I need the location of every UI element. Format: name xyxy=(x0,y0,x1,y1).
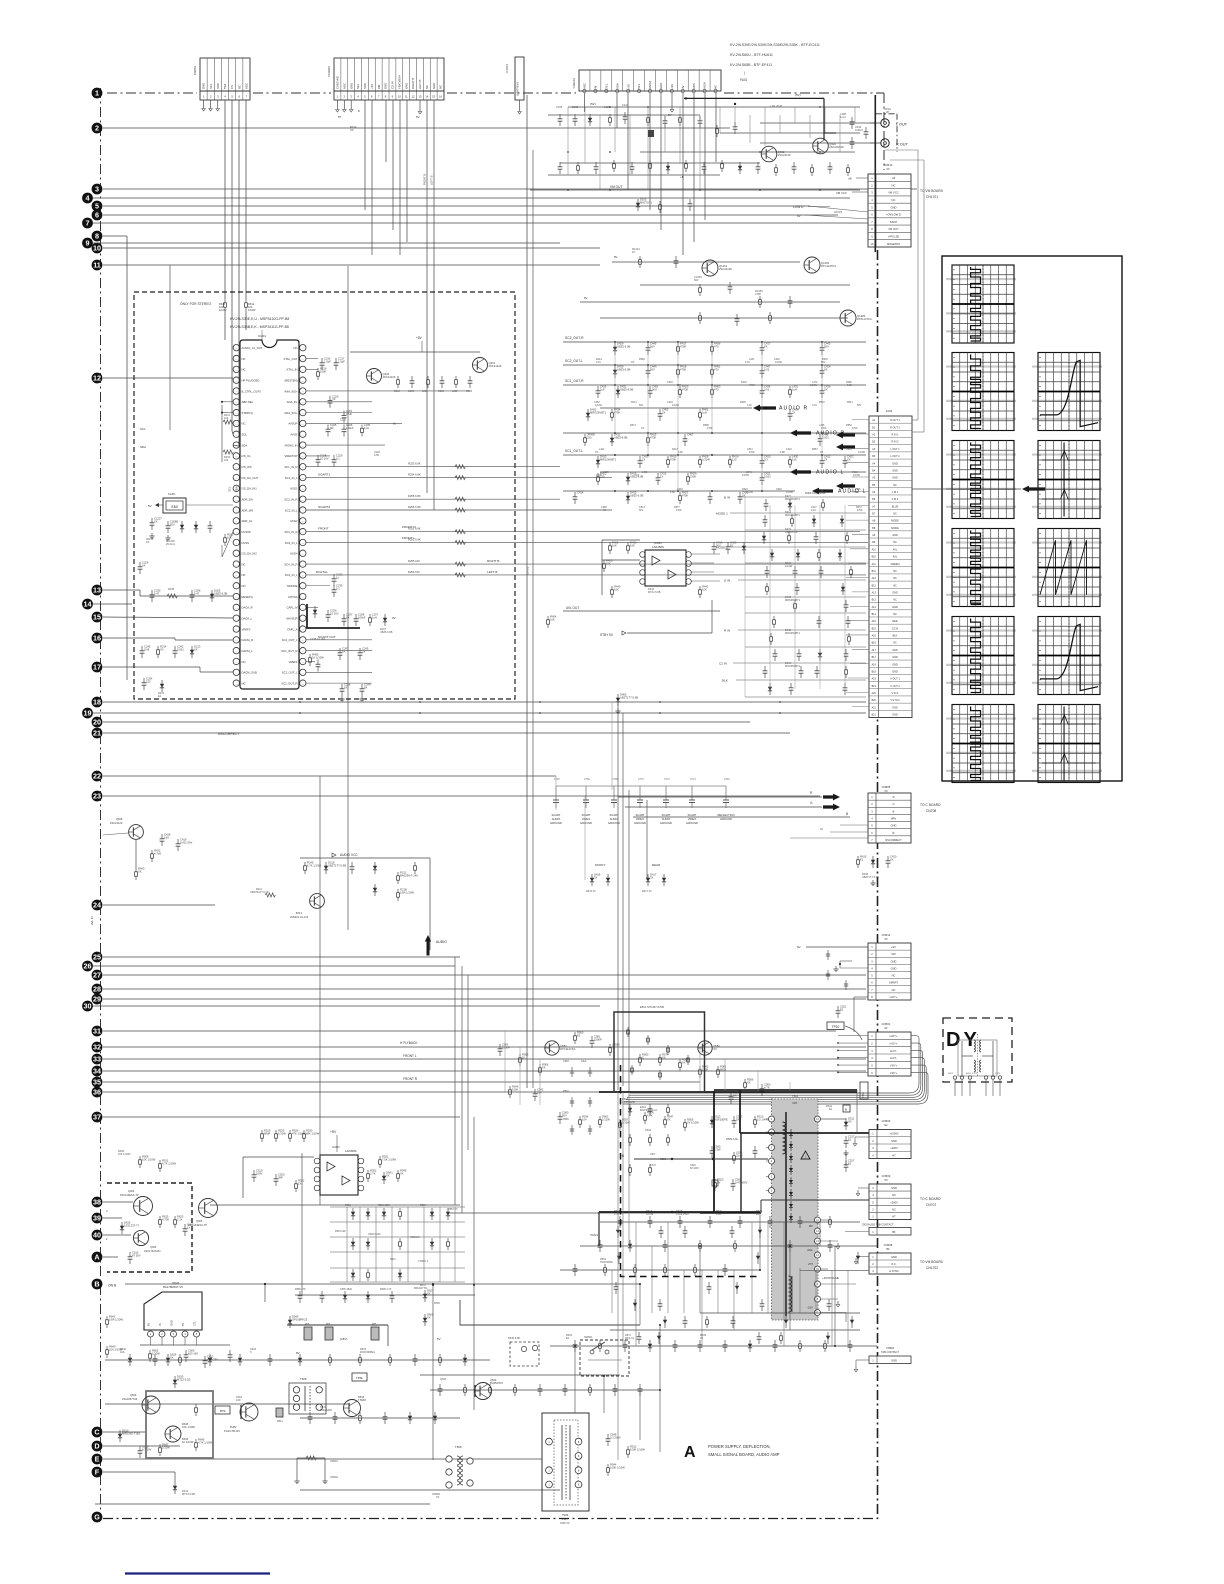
svg-text:6.8K: 6.8K xyxy=(780,451,785,454)
svg-text:CAPL_A: CAPL_A xyxy=(287,627,298,631)
svg-text:C215: C215 xyxy=(408,390,415,393)
svg-text:H.DY-: H.DY- xyxy=(890,1056,897,1060)
svg-text:MRD2E5-T1B2: MRD2E5-T1B2 xyxy=(122,1431,141,1435)
svg-text:C425: C425 xyxy=(603,471,609,474)
wire bus y989 xyxy=(103,988,866,990)
svg-text:1/10W: 1/10W xyxy=(858,451,866,454)
svg-text:100K 1/10W: 100K 1/10W xyxy=(630,1447,645,1451)
svg-text:2.7K: 2.7K xyxy=(614,1213,619,1216)
svg-text:+B: +B xyxy=(620,1154,624,1158)
oscillogram W2 xyxy=(946,353,1016,431)
oscillogram W3 xyxy=(946,441,1016,519)
svg-text:UBZ5-6.0B: UBZ5-6.0B xyxy=(630,493,644,497)
svg-text:1/10W: 1/10W xyxy=(595,404,603,407)
svg-text:28: 28 xyxy=(93,985,101,994)
wire B arrow xyxy=(633,816,850,818)
warning triangle xyxy=(801,1151,810,1159)
component D101 box xyxy=(648,130,654,137)
svg-text:+200V: +200V xyxy=(890,1146,898,1150)
resistor R211 jr xyxy=(265,893,275,897)
svg-text:22uH: 22uH xyxy=(736,1153,742,1157)
svg-text:13: 13 xyxy=(93,586,101,595)
oscillogram W5 xyxy=(946,617,1016,695)
transformer T503 PWT xyxy=(542,1413,589,1511)
svg-text:F: F xyxy=(95,1468,100,1477)
capacitor C519 C520 xyxy=(253,1170,255,1175)
svg-text:Y/V IN 2: Y/V IN 2 xyxy=(890,699,900,702)
svg-text:R255 100: R255 100 xyxy=(408,559,420,563)
svg-text:0.001: 0.001 xyxy=(177,647,184,651)
wire top mid verticals xyxy=(567,107,569,175)
svg-text:Q609: Q609 xyxy=(130,1393,137,1397)
svg-text:GND: GND xyxy=(404,83,408,89)
svg-text:29: 29 xyxy=(93,995,101,1004)
svg-text:CN1101: CN1101 xyxy=(572,78,576,89)
oscillogram W4 xyxy=(946,529,1016,607)
wire bus y702 xyxy=(103,701,866,703)
svg-text:31: 31 xyxy=(93,1027,101,1036)
wire bus y1459 xyxy=(103,1458,542,1460)
svg-text:B13: B13 xyxy=(872,599,877,602)
relay RY601 xyxy=(580,1340,629,1376)
wire bus y198 xyxy=(93,197,850,199)
jack L OUT xyxy=(881,119,889,127)
svg-text:+RV: +RV xyxy=(330,1130,337,1134)
wire CN2001 5V stub xyxy=(419,100,421,108)
wire XTAL components xyxy=(306,358,318,360)
svg-text:100V: 100V xyxy=(256,1171,262,1175)
wire CN512 gnd jog xyxy=(840,960,852,962)
wire audio L rows xyxy=(600,471,866,473)
svg-text:SCART: SCART xyxy=(551,813,560,817)
node 34 (sheet interconnect) xyxy=(92,1066,103,1077)
svg-text:AVL: AVL xyxy=(893,548,898,551)
svg-text:R IN 1: R IN 1 xyxy=(891,434,899,437)
transistor Q503 mosfet xyxy=(475,1383,492,1400)
svg-text:XX: XX xyxy=(884,938,888,941)
svg-text:UBZ5-6.0B: UBZ5-6.0B xyxy=(214,591,228,595)
node 5 (sheet interconnect) xyxy=(92,201,103,212)
svg-text:C5V: C5V xyxy=(434,1301,440,1305)
capacitor scart ground group x726 xyxy=(725,786,727,800)
svg-text:KV-29LS35B,E,K - MSP3411G-PP-B: KV-29LS35B,E,K - MSP3411G-PP-B5 xyxy=(230,325,289,329)
wire node17 xyxy=(103,666,200,668)
wire bus y265 xyxy=(103,264,600,266)
svg-text:1K 1/10W: 1K 1/10W xyxy=(312,655,324,659)
node 20 (sheet interconnect) xyxy=(92,717,103,728)
ic IC201 pin L14 I2S_DA_IN1 xyxy=(233,485,239,491)
wire CN501 right bundle xyxy=(911,1036,919,1083)
ic IC201 pin R19 SC3_IN_L xyxy=(300,539,306,545)
svg-text:RIGHT B: RIGHT B xyxy=(423,174,427,185)
svg-text:SC3_IN_R: SC3_IN_R xyxy=(284,530,297,534)
svg-text:C422: C422 xyxy=(786,448,792,451)
connector CN2001 (top center) xyxy=(334,58,444,91)
svg-text:4.70K: 4.70K xyxy=(162,1217,169,1221)
svg-text:1.5pF: 1.5pF xyxy=(338,359,345,363)
svg-text:NC: NC xyxy=(242,562,246,566)
svg-text:XX: XX xyxy=(678,384,682,387)
arrow AUDIO R 2 xyxy=(790,430,811,437)
svg-text:H.DY+: H.DY+ xyxy=(890,1034,898,1038)
svg-text:0.01: 0.01 xyxy=(812,404,817,407)
wire snubber mesh xyxy=(330,1206,465,1208)
svg-text:11: 11 xyxy=(405,94,408,98)
node 9 (sheet interconnect) xyxy=(82,238,93,249)
svg-text:FRONT: FRONT xyxy=(595,863,605,867)
resistor R521 xyxy=(379,1156,381,1160)
svg-text:1/10W: 1/10W xyxy=(785,565,793,568)
svg-text:R557: R557 xyxy=(812,448,818,451)
wire node16 DACM xyxy=(103,637,175,639)
svg-text:UBZ5-6.0B: UBZ5-6.0B xyxy=(614,435,628,439)
svg-text:BLUE: BLUE xyxy=(892,505,899,508)
node 7 (sheet interconnect) xyxy=(82,218,93,229)
ic IC201 pin L6 ABP-SEL xyxy=(233,399,239,405)
svg-text:GND: GND xyxy=(891,1255,897,1259)
wire CN801 pin5 drop SCL xyxy=(231,100,233,431)
svg-text:GREEN: GREEN xyxy=(891,563,900,566)
svg-text:XX: XX xyxy=(886,167,890,171)
svg-text:27: 27 xyxy=(93,971,101,980)
svg-text:GND: GND xyxy=(202,83,206,89)
ic IC201 pin R20 ASG4 xyxy=(300,550,306,556)
svg-text:XX: XX xyxy=(733,1093,737,1097)
svg-text:CN805: CN805 xyxy=(882,785,891,789)
svg-text:AUDIO: AUDIO xyxy=(662,817,671,821)
svg-text:GROUND: GROUND xyxy=(550,821,562,825)
wire 18v path xyxy=(287,1324,388,1326)
svg-text:2X: 2X xyxy=(662,410,665,414)
svg-text:R514: R514 xyxy=(847,401,853,404)
svg-text:10K: 10K xyxy=(702,587,707,591)
svg-text:IC301: IC301 xyxy=(332,1145,340,1149)
svg-text:UBZ5-6.0B: UBZ5-6.0B xyxy=(380,631,393,634)
wire DY bundle horizontals xyxy=(909,1083,919,1093)
svg-text:LA6458S: LA6458S xyxy=(345,1149,357,1153)
wire bus y999 xyxy=(103,998,866,1000)
svg-text:L444: L444 xyxy=(599,448,605,451)
wire CN2001 drops xyxy=(364,100,366,210)
svg-text:1500P: 1500P xyxy=(502,1045,510,1049)
svg-text:10 16V: 10 16V xyxy=(330,611,339,615)
svg-text:NC: NC xyxy=(242,681,246,685)
svg-text:Q003: Q003 xyxy=(150,1245,157,1249)
node 33 (sheet interconnect) xyxy=(92,1054,103,1065)
diode D412 node F xyxy=(174,1482,176,1494)
svg-text:GND: GND xyxy=(892,706,898,709)
svg-text:5v: 5v xyxy=(393,421,397,425)
wire JW601 loop xyxy=(297,1458,325,1478)
wire IC451 loop xyxy=(602,540,640,595)
svg-text:R605 4.7K: R605 4.7K xyxy=(380,1288,392,1291)
transformer T511 secondary winding xyxy=(789,1276,792,1280)
svg-text:NC: NC xyxy=(242,573,246,577)
arrow AUDIO L into panel xyxy=(912,488,1021,490)
wire b rail to regulator xyxy=(264,1284,266,1302)
wire audio R rows xyxy=(600,407,752,409)
svg-text:C583: C583 xyxy=(563,1060,569,1063)
svg-text:L IN 1: L IN 1 xyxy=(892,491,899,494)
transistor Q612 xyxy=(310,894,325,909)
svg-text:RED: RED xyxy=(892,620,897,623)
svg-text:MONO_IN: MONO_IN xyxy=(285,443,298,447)
wire bus y1031 xyxy=(103,1030,836,1032)
wire b+ vertical xyxy=(740,1133,742,1213)
svg-text:AHVSS: AHVSS xyxy=(288,595,297,599)
svg-text:VREF1: VREF1 xyxy=(289,660,298,664)
svg-text:4.7uH: 4.7uH xyxy=(154,851,161,855)
resistor upper right second row xyxy=(559,162,561,167)
svg-text:STBRYQ: STBRYQ xyxy=(242,411,253,415)
svg-text:100: 100 xyxy=(224,417,229,420)
wire bus y713 xyxy=(93,712,866,714)
svg-text:23: 23 xyxy=(93,792,101,801)
svg-text:MROZ6VBT1: MROZ6VBT1 xyxy=(590,410,607,414)
dots bottom mesh xyxy=(639,1283,641,1285)
svg-text:SDA: SDA xyxy=(140,445,146,449)
svg-text:G: G xyxy=(892,802,894,806)
svg-text:4V: 4V xyxy=(681,85,685,89)
svg-text:2SC2412K: 2SC2412K xyxy=(383,375,396,379)
svg-text:1uH: 1uH xyxy=(372,615,377,619)
svg-text:2.7K: 2.7K xyxy=(370,1171,376,1175)
svg-text:R IN: R IN xyxy=(724,629,730,633)
svg-text:ON B: ON B xyxy=(108,1284,117,1288)
svg-text:0.001: 0.001 xyxy=(764,474,771,478)
diode D511 xyxy=(845,1118,847,1130)
svg-text:XX: XX xyxy=(154,519,158,523)
svg-text:XX: XX xyxy=(824,367,828,371)
svg-text:A: A xyxy=(94,1253,99,1262)
capacitor C414 xyxy=(574,492,576,497)
svg-text:8V: 8V xyxy=(147,1323,151,1326)
component RS11 box xyxy=(843,1105,850,1112)
svg-text:SCART: SCART xyxy=(581,813,590,817)
svg-text:JW601: JW601 xyxy=(330,1460,338,1463)
svg-text:I2S_CL: I2S_CL xyxy=(242,454,252,458)
svg-text:XX: XX xyxy=(736,1117,740,1121)
svg-text:1uH: 1uH xyxy=(364,426,369,430)
svg-text:3X: 3X xyxy=(650,875,653,879)
capacitor scart ground group x692 xyxy=(691,786,693,800)
svg-text:SC2_IN_R: SC2_IN_R xyxy=(284,497,297,501)
svg-text:MROZ6VBT1: MROZ6VBT1 xyxy=(600,457,617,461)
svg-text:0.001 50V: 0.001 50V xyxy=(180,840,192,844)
resistor R640 R641 ticks xyxy=(224,299,226,303)
svg-text:10 16V: 10 16V xyxy=(320,456,329,460)
svg-text:2SA1037AK: 2SA1037AK xyxy=(829,145,844,149)
component heatsink internals xyxy=(195,1404,197,1408)
svg-text:TP11: TP11 xyxy=(861,1091,865,1098)
svg-text:G: G xyxy=(94,1513,100,1522)
svg-text:1X: 1X xyxy=(298,1181,301,1185)
svg-text:FBT: FBT xyxy=(793,1101,798,1105)
wire SC1_OUT-L row xyxy=(563,454,866,456)
svg-text:1/10W: 1/10W xyxy=(646,1213,654,1216)
diode D627 xyxy=(424,1290,426,1302)
svg-text:6.8K: 6.8K xyxy=(854,491,859,494)
arrow JA01 in L xyxy=(836,483,855,490)
wire heavy y1212 xyxy=(599,1211,760,1213)
svg-text:5V: 5V xyxy=(148,504,152,508)
svg-text:13: 13 xyxy=(418,94,422,98)
wire trunk x320 xyxy=(319,776,321,1205)
transistor Q004 xyxy=(134,1197,153,1216)
svg-text:DACA_R: DACA_R xyxy=(242,606,253,610)
node 4 (sheet interconnect) xyxy=(82,193,93,204)
svg-text:+15VPULSE: +15VPULSE xyxy=(822,1276,839,1280)
svg-text:SSCP: SSCP xyxy=(890,220,898,224)
svg-text:6.8K: 6.8K xyxy=(670,491,675,494)
svg-text:XX: XX xyxy=(847,457,851,461)
svg-text:V OUT 1: V OUT 1 xyxy=(890,678,900,681)
svg-text:4.7K 1/10W: 4.7K 1/10W xyxy=(198,1440,213,1444)
node 3 (sheet interconnect) xyxy=(92,184,103,195)
svg-text:BA178M33T-V5: BA178M33T-V5 xyxy=(163,1285,183,1289)
svg-text:H.DY-: H.DY- xyxy=(890,1049,897,1053)
ic IC201 pin L23 NC xyxy=(233,583,239,589)
svg-text:GROUND: GROUND xyxy=(720,817,732,821)
svg-text:SCART1: SCART1 xyxy=(318,473,330,477)
node 28 (sheet interconnect) xyxy=(92,984,103,995)
svg-text:2: 2 xyxy=(95,124,99,133)
svg-text:XX: XX xyxy=(142,563,146,567)
svg-text:MTZJ-5.6B: MTZJ-5.6B xyxy=(648,591,661,594)
svg-text:HIGH: HIGH xyxy=(703,82,707,89)
node 21 (sheet interconnect) xyxy=(92,728,103,739)
svg-text:DACM_SUB: DACM_SUB xyxy=(242,671,257,675)
ic IC201 pin R27 CAPL_A xyxy=(300,626,306,632)
mesh bottom center verticals xyxy=(574,1346,576,1413)
wire board boundary dash-dot right edge xyxy=(883,93,885,170)
svg-text:47uF: 47uF xyxy=(346,412,352,416)
node 24 (sheet interconnect) xyxy=(92,900,103,911)
svg-text:C407: C407 xyxy=(687,433,694,437)
svg-text:FRONT: FRONT xyxy=(318,527,329,531)
svg-text:L507: L507 xyxy=(650,1153,656,1156)
svg-text:ADR_DA: ADR_DA xyxy=(242,497,253,501)
diode D610 xyxy=(119,1430,121,1442)
svg-text:470K: 470K xyxy=(852,427,858,430)
svg-text:C520: C520 xyxy=(776,488,782,491)
svg-text:XX: XX xyxy=(884,790,888,793)
svg-text:8: 8 xyxy=(95,232,99,241)
svg-text:SCART: SCART xyxy=(661,813,670,817)
svg-text:0.1: 0.1 xyxy=(336,586,340,590)
node 10 (sheet interconnect) xyxy=(92,243,103,254)
svg-text:XX: XX xyxy=(713,1047,717,1051)
capacitor scart ground group x556 xyxy=(555,786,557,800)
svg-text:D: D xyxy=(94,1442,99,1451)
svg-text:50V: 50V xyxy=(824,344,829,348)
svg-text:3: 3 xyxy=(95,185,99,194)
svg-text:1/10W: 1/10W xyxy=(742,474,750,477)
ic IC201 pin L20 I2S_DA_IN2 xyxy=(233,550,239,556)
svg-text:NC: NC xyxy=(892,183,896,187)
wire rows 18-21 left stubs density xyxy=(299,701,301,703)
svg-text:50V: 50V xyxy=(694,278,699,282)
svg-text:2SC2412K: 2SC2412K xyxy=(110,821,123,825)
component ticks near CN512 xyxy=(827,950,829,960)
svg-text:AGC: AGC xyxy=(342,83,346,89)
svg-text:H.DY+: H.DY+ xyxy=(890,1042,898,1046)
svg-text:0.001: 0.001 xyxy=(822,435,829,439)
ic IC201 pin L21 NC xyxy=(233,561,239,567)
svg-text:B: B xyxy=(893,809,895,813)
ic IC201 pin R31 SC2_OUT_L xyxy=(300,669,306,675)
wire ANA rows xyxy=(306,401,372,403)
svg-text:C463: C463 xyxy=(667,381,673,384)
svg-text:5SA: 5SA xyxy=(223,84,227,89)
svg-text:CN503: CN503 xyxy=(882,1119,891,1123)
svg-text:SC1_OUT_R: SC1_OUT_R xyxy=(281,649,297,653)
svg-text:R528: R528 xyxy=(740,401,746,404)
ic IC201 pin L28 DACM_R xyxy=(233,637,239,643)
svg-text:H-DY V-DY: H-DY V-DY xyxy=(966,1073,978,1075)
svg-text:1uH: 1uH xyxy=(792,387,797,391)
svg-text:SCART: SCART xyxy=(609,813,618,817)
svg-text:420 16V: 420 16V xyxy=(188,1351,198,1355)
ic IC201 pin L32 NC xyxy=(233,680,239,686)
wire bus y189 xyxy=(103,188,917,190)
svg-text:GND: GND xyxy=(892,656,898,659)
svg-text:GND: GND xyxy=(349,83,353,89)
ic IC201 pin R29 SC1_OUT_R xyxy=(300,647,306,653)
svg-text:XX: XX xyxy=(194,647,198,651)
svg-text:SDA: SDA xyxy=(363,83,367,89)
svg-text:CN501: CN501 xyxy=(882,1022,891,1026)
wire bus y223 xyxy=(93,222,877,224)
svg-text:NC: NC xyxy=(425,85,429,89)
svg-text:STBY 5V: STBY 5V xyxy=(600,633,614,637)
wire CN2001 RIGHT-B drop xyxy=(426,100,428,493)
svg-text:470K: 470K xyxy=(596,474,602,477)
svg-text:LEFT B: LEFT B xyxy=(418,79,422,89)
svg-text:B_CTRL_OUT0: B_CTRL_OUT0 xyxy=(242,389,262,393)
svg-text:C: C xyxy=(94,1428,99,1437)
svg-text:470K: 470K xyxy=(670,457,676,461)
wire cn504 gnd xyxy=(856,1359,869,1361)
svg-text:NC: NC xyxy=(893,599,897,602)
svg-text:GROUND: GROUND xyxy=(660,821,672,825)
svg-text:25: 25 xyxy=(93,953,101,962)
svg-text:NC: NC xyxy=(892,198,896,202)
svg-text:SCART: SCART xyxy=(687,813,696,817)
ic IC201 pin R16 SC2_IN_L xyxy=(300,507,306,513)
wire R OUT stub xyxy=(870,142,881,144)
svg-text:R416 3X: R416 3X xyxy=(586,890,596,893)
svg-text:CAPL_M: CAPL_M xyxy=(286,606,298,610)
svg-text:GNDA: GNDA xyxy=(648,81,652,89)
svg-text:R515: R515 xyxy=(420,1204,426,1207)
svg-text:NC: NC xyxy=(893,577,897,580)
svg-text:25.0mm: 25.0mm xyxy=(166,543,175,546)
svg-text:+9V: +9V xyxy=(670,84,674,89)
wire bus y1092 xyxy=(103,1091,640,1093)
svg-text:R574: R574 xyxy=(630,424,636,427)
svg-text:B21: B21 xyxy=(872,713,877,716)
svg-text:C2 IN: C2 IN xyxy=(719,662,727,666)
svg-text:CS: CS xyxy=(230,85,234,89)
svg-text:6.7K 1/10W: 6.7K 1/10W xyxy=(307,863,322,867)
wire CN801 pin7 drop xyxy=(245,100,247,299)
wire CN2001 LEFT-B drop xyxy=(433,100,435,510)
svg-text:37: 37 xyxy=(93,1113,101,1122)
svg-text:BF: BF xyxy=(886,1248,890,1251)
wire +5V rail xyxy=(568,106,860,108)
wire VM OUT row xyxy=(530,189,860,191)
